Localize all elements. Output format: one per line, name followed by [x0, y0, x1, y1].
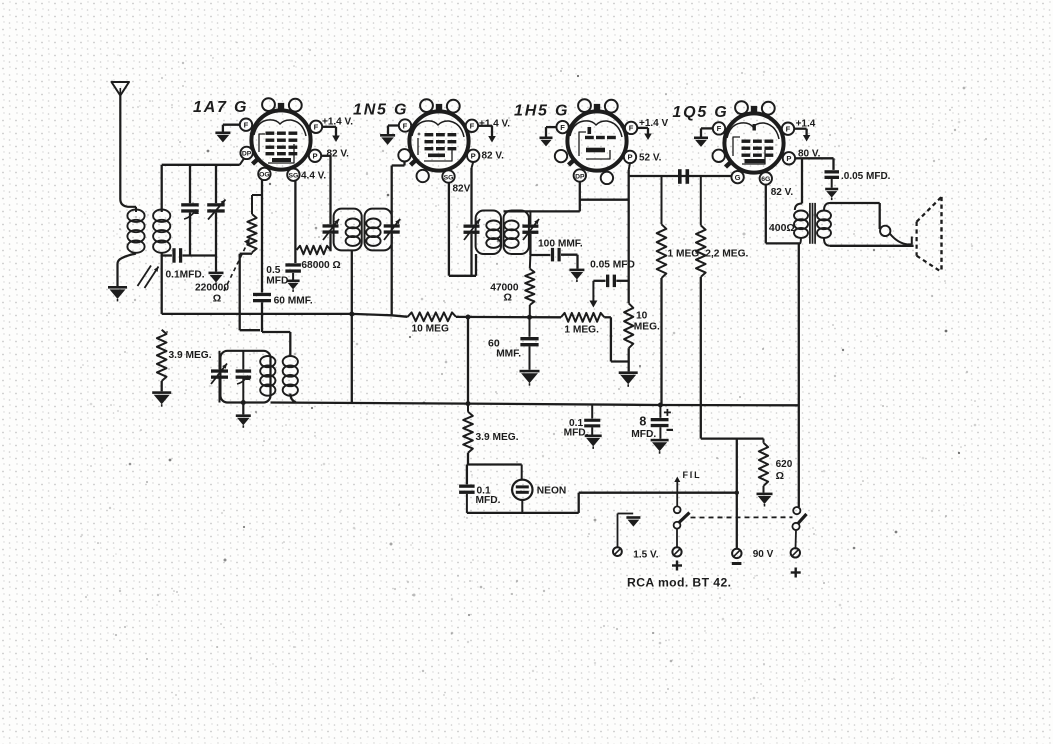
pin left 1H5 [555, 150, 567, 162]
terminal 90V minus [732, 549, 741, 558]
svg-text:G: G [735, 173, 741, 182]
ground 0.5MFD [287, 280, 300, 292]
svg-text:82 V.: 82 V. [771, 187, 794, 198]
NEON box bottom [467, 493, 579, 513]
label 1 MEG horiz [564, 325, 599, 336]
label 80V 1Q5 [798, 148, 821, 159]
bus B-minus bottom [271, 403, 799, 406]
wire IF2 left down [470, 234, 472, 276]
svg-text:3.9 MEG.: 3.9 MEG. [169, 350, 212, 361]
terminal 90V plus [791, 548, 800, 557]
ground 100MMF [569, 269, 584, 282]
svg-text:8: 8 [639, 415, 646, 429]
IF1 can right [365, 209, 392, 251]
wire F1N5 to ground [388, 126, 399, 135]
wire IF1 left down [329, 234, 331, 252]
capacitor osc fixed [236, 351, 252, 403]
dashed switch link [691, 516, 793, 518]
svg-text:6G: 6G [761, 176, 770, 183]
pin F left 1N5 [399, 119, 411, 131]
svg-text:MFD: MFD [266, 275, 288, 286]
IF2 can left [476, 211, 501, 255]
label minus 8MFD [667, 429, 674, 431]
svg-text:MMF.: MMF. [496, 348, 521, 359]
tube U1 1A7G [251, 98, 310, 169]
capacitor 0.1 MFD antenna [162, 248, 216, 263]
resistor 3.9 MEG right [463, 404, 473, 465]
terminal FIL plus [672, 547, 681, 556]
wire P 1N5 to IF2 [472, 162, 474, 224]
svg-text:RCA mod. BT 42.: RCA mod. BT 42. [627, 576, 731, 590]
svg-text:P: P [312, 152, 317, 161]
tube label 1Q5 G [672, 104, 728, 121]
oscillator coil box [220, 351, 270, 403]
switch 90V [792, 507, 806, 548]
svg-text:Ω: Ω [213, 293, 221, 305]
pin left 1N5 [398, 149, 410, 161]
wire +1.4 1Q5 [794, 129, 810, 142]
label plus FIL [672, 561, 682, 571]
label 60 MMF osc [274, 296, 313, 307]
pin SG 1N5 [442, 170, 454, 182]
wire 2.2MEG to minus line [701, 437, 764, 439]
AVC arrow [589, 281, 597, 308]
label plus 90V [791, 568, 801, 578]
svg-text:1 MEG.: 1 MEG. [564, 325, 599, 336]
svg-text:F: F [786, 125, 791, 134]
wire F1A7 to ground [223, 125, 240, 132]
label 3.9 MEG left [169, 350, 212, 361]
svg-text:OG: OG [259, 172, 270, 179]
pin F right 1H5 [625, 122, 637, 134]
svg-text:DP: DP [242, 151, 252, 158]
ground 10MEG vert [619, 371, 638, 386]
svg-text:MFD.: MFD. [564, 428, 589, 439]
label 82V 1A7 [327, 149, 350, 160]
capacitor 100 MMF [530, 248, 577, 269]
wire OT to switch [798, 243, 800, 507]
wire minus terminal line [736, 439, 738, 549]
svg-text:Ω: Ω [504, 292, 512, 304]
wire secondary bottom [161, 253, 163, 314]
pin F right 1N5 [466, 120, 478, 132]
wire bus mid [456, 316, 561, 319]
wire secondary top loop [830, 203, 912, 245]
svg-text:F: F [629, 124, 634, 133]
label 10 MEG vert [634, 310, 660, 332]
IF2 coil left [486, 221, 500, 248]
label 1.5 V. [633, 550, 658, 561]
wire IF1 tap down [351, 250, 353, 403]
tube U4 1Q5G [724, 101, 783, 172]
wire antenna lead [120, 96, 136, 207]
svg-text:F: F [560, 123, 565, 132]
label +1.4V 1N5 [479, 119, 510, 130]
junction 60MMF [527, 315, 532, 320]
label 3.9 MEG right [476, 432, 519, 443]
wire F1Q5 to ground [701, 128, 713, 136]
wire 468 riser [467, 317, 469, 404]
label +1.4 1Q5 [796, 119, 816, 130]
dashed arrow 220k [224, 238, 250, 291]
svg-text:1Q5 G: 1Q5 G [672, 104, 728, 121]
label 60 MMF AVC [488, 337, 521, 359]
pin DP 1H5 [574, 169, 586, 181]
junction IF1 tap bus [349, 312, 354, 317]
ground 620 [757, 493, 773, 507]
svg-text:2,2 MEG.: 2,2 MEG. [705, 248, 748, 259]
pin 6G 1Q5 [760, 172, 772, 184]
svg-text:MFD.: MFD. [631, 429, 656, 440]
svg-text:FIL: FIL [683, 470, 702, 480]
wire P 1H5 down [629, 163, 630, 176]
svg-text:82 V.: 82 V. [482, 150, 505, 161]
label +1.4V 1A7 [322, 117, 353, 128]
svg-text:P: P [471, 152, 476, 161]
antenna coil primary [127, 207, 144, 254]
svg-text:SG: SG [288, 173, 298, 180]
wire 6G down [766, 185, 800, 244]
tuning arrow antenna coils [138, 266, 159, 289]
label minus 90V [732, 562, 742, 565]
ground F 1H5 [540, 137, 553, 147]
svg-text:+1.4 V.: +1.4 V. [479, 119, 510, 130]
svg-text:400Ω: 400Ω [769, 222, 795, 234]
pin F right 1A7 [310, 121, 322, 133]
IF2 coil right [504, 221, 518, 248]
label NEON [537, 485, 566, 496]
pin F right 1Q5 [782, 123, 794, 135]
resistor 68000 ohm [297, 246, 331, 254]
resistor 10 MEG [408, 312, 456, 321]
resistor 47000 ohm [525, 255, 534, 317]
wire DP riser [240, 159, 244, 165]
wire +1.4V 1H5 [637, 128, 652, 140]
pin P 1N5 [467, 150, 479, 162]
resistor 1 MEG vertical [657, 176, 667, 405]
switch FIL [674, 493, 690, 548]
svg-text:52 V.: 52 V. [639, 153, 662, 164]
label 100 MMF [538, 239, 583, 250]
resistor 10 MEG vertical [624, 303, 633, 371]
svg-text:F: F [403, 121, 408, 130]
resistor 3.9 MEG left [157, 330, 167, 392]
ground 8MFD [651, 439, 669, 454]
capacitor coupling [678, 169, 689, 184]
label 1 MEG vertical [668, 248, 700, 259]
svg-text:100 MMF.: 100 MMF. [538, 239, 583, 250]
tube label 1A7 G [193, 99, 248, 116]
label FIL [683, 470, 702, 480]
IF2 can right [504, 211, 529, 255]
wire IF1 right to bus [391, 234, 393, 316]
pin F left 1A7 [240, 119, 252, 131]
FIL arrow [674, 477, 680, 493]
svg-text:0.5: 0.5 [266, 265, 280, 276]
speaker cone [917, 197, 942, 271]
svg-text:1A7 G: 1A7 G [193, 99, 248, 116]
svg-text:90 V: 90 V [753, 549, 774, 560]
svg-text:+1.4 V: +1.4 V [639, 118, 669, 129]
wire OG line [261, 180, 263, 293]
label 0.1 MFD neon [476, 485, 501, 506]
svg-text:10: 10 [636, 310, 648, 321]
capacitor 0.05 MFD det [593, 275, 628, 288]
wire SG 1A7 down [294, 181, 296, 263]
resistor 1 MEG horiz [561, 313, 604, 322]
svg-text:82V: 82V [453, 184, 471, 195]
svg-text:620: 620 [776, 459, 793, 470]
bus AVC top [162, 314, 408, 317]
svg-text:.0.05 MFD.: .0.05 MFD. [841, 171, 891, 182]
label 82V 1Q5 [771, 187, 794, 198]
label 2.2 MEG [705, 248, 748, 259]
svg-text:4.4 V.: 4.4 V. [301, 171, 326, 182]
capacitor 0.1 MFD neon [459, 485, 475, 513]
ground antenna [108, 286, 127, 301]
pin DP 1A7 [240, 147, 252, 159]
IF2 trimmer right [522, 211, 539, 240]
caption RCA mod. BT42 [627, 576, 731, 590]
IF1 trimmer right [384, 219, 400, 240]
capacitor 60 MMF AVC [520, 317, 538, 370]
junction bus x660 [658, 403, 663, 408]
junction osc ground [241, 400, 246, 405]
label 400 ohm [769, 222, 795, 234]
tube label 1N5 G [353, 102, 408, 119]
output transformer primary [794, 204, 808, 244]
label 10 MEG [412, 324, 449, 335]
svg-text:MEG.: MEG. [634, 322, 660, 333]
label 8 MFD [631, 415, 656, 440]
svg-text:0.1MFD.: 0.1MFD. [166, 270, 205, 281]
ground F 1A7 [215, 132, 230, 143]
capacitor 0.05 MFD output [825, 170, 840, 188]
label 68000 ohm [301, 260, 340, 271]
ground F 1N5 [380, 134, 395, 145]
wire osc grid jog [240, 254, 260, 331]
wire DP to 10MEG line [580, 199, 629, 201]
pin bottom-left 1N5 [417, 170, 429, 182]
svg-text:Ω: Ω [776, 470, 784, 482]
wire DP 1H5 down [579, 182, 581, 212]
ground chassis 1.5V [626, 516, 640, 526]
capacitor tuning (variable) [207, 165, 225, 258]
pin P 1A7 [309, 150, 321, 162]
wire antenna coil to ground [118, 254, 137, 287]
capacitor 60 MMF osc [253, 293, 271, 332]
capacitor 0.1 MFD output bus [584, 404, 600, 434]
IF1 coil right [366, 219, 380, 246]
svg-text:0.05 MFD: 0.05 MFD [590, 260, 635, 271]
terminal 1.5V minus [613, 547, 622, 556]
wire secondary top to bus [162, 165, 240, 212]
resistor 220000 ohm [240, 195, 262, 254]
svg-text:1.5 V.: 1.5 V. [633, 550, 658, 561]
svg-text:F: F [314, 123, 319, 132]
pin OG 1A7 [258, 168, 270, 180]
wire secondary bottom [830, 245, 914, 247]
pin SG 1A7 [287, 169, 299, 181]
svg-text:1N5 G: 1N5 G [353, 102, 408, 119]
svg-text:68000 Ω: 68000 Ω [301, 260, 340, 271]
output transformer core [810, 203, 815, 244]
svg-text:DP: DP [575, 173, 585, 180]
output transformer secondary [817, 203, 831, 246]
svg-text:F: F [244, 121, 249, 130]
NEON box top [467, 465, 522, 485]
label 82V 1N5 [482, 150, 505, 161]
label 0.1 MFD bus [564, 418, 589, 439]
pin F left 1Q5 [713, 122, 725, 134]
tube U2 1N5G [409, 99, 468, 170]
label plus 8MFD [664, 409, 671, 416]
wire P to 0.05 cap [802, 158, 834, 170]
svg-text:+1.4 V.: +1.4 V. [322, 117, 353, 128]
ground oscillator [236, 403, 251, 428]
resistor 620 ohm [759, 439, 768, 493]
label 220000 ohm [195, 283, 229, 305]
label 0.05 MFD det [590, 260, 635, 271]
label 82V SG 1N5 [453, 184, 471, 195]
wire F1H5 to ground [546, 127, 557, 136]
junction FIL bus minus [735, 491, 739, 495]
oscillator coil A [260, 356, 275, 396]
svg-text:F: F [717, 124, 722, 133]
svg-text:10 MEG: 10 MEG [412, 324, 449, 335]
wire 10MEG riser [628, 176, 630, 303]
svg-text:MFD.: MFD. [476, 495, 501, 506]
IF1 can left [334, 209, 362, 251]
wire IF2 right down [529, 234, 531, 255]
svg-text:P: P [627, 153, 632, 162]
junction bus end right [798, 404, 800, 406]
label 620 ohm [776, 459, 793, 482]
capacitor 0.5 MFD [285, 263, 301, 279]
wire P 1A7 to IF1 [321, 156, 330, 224]
label 90 V [753, 549, 774, 560]
IF1 trimmer left [323, 219, 340, 240]
pin F left 1H5 [556, 121, 568, 133]
wire 1N5 grid to IF1 [392, 161, 405, 224]
junction bus x468 top [466, 315, 471, 320]
tube U3 1H5G [567, 99, 626, 170]
label 0.5 MFD [266, 265, 288, 286]
wire P1H5 to G1Q5 [629, 175, 732, 177]
oscillator coil B [283, 356, 298, 403]
pin left 1Q5 [713, 150, 725, 162]
wire +1.4V 1N5 [478, 126, 496, 143]
IF1 coil left [346, 219, 360, 246]
antenna [112, 82, 130, 96]
wire osc feedback jog [262, 332, 290, 357]
pin G 1Q5 [731, 171, 743, 183]
label 0.05 MFD output [841, 171, 891, 182]
ground F 1Q5 [694, 137, 708, 147]
wire P 1Q5 to OT [795, 158, 802, 203]
ground tuning cap [209, 258, 224, 285]
wire 1.5V terminal [618, 514, 634, 548]
svg-text:SG: SG [444, 174, 454, 181]
svg-text:1H5 G: 1H5 G [514, 103, 569, 120]
pin P 1H5 [624, 151, 636, 163]
ground 60MMF AVC [520, 370, 540, 386]
svg-text:3.9 MEG.: 3.9 MEG. [476, 432, 519, 443]
wire IF2 top to DP [504, 210, 580, 212]
ground 0.05 output [825, 188, 838, 200]
label +1.4V 1H5 [639, 118, 669, 129]
ground 0.1 bus [585, 435, 602, 449]
label 52V 1H5 [639, 153, 662, 164]
pin P 1Q5 [783, 152, 795, 164]
svg-text:60 MMF.: 60 MMF. [274, 296, 313, 307]
capacitor padder (fixed) [181, 165, 199, 256]
label 47000 ohm [490, 283, 519, 304]
svg-text:+1.4: +1.4 [796, 119, 816, 130]
ground 3.9MEG left [152, 391, 171, 406]
wire +1.4V 1A7 [322, 127, 340, 142]
label 4.4V 1A7 [301, 171, 326, 182]
capacitor osc variable [211, 351, 228, 403]
neon lamp [512, 465, 532, 513]
wire SG 1N5 down [449, 183, 476, 276]
IF2 trimmer left [464, 219, 481, 240]
svg-text:1 MEG: 1 MEG [668, 248, 700, 259]
label 0.1MFD antenna [166, 270, 205, 281]
resistor 2.2 MEG [696, 176, 706, 439]
svg-text:P: P [786, 154, 791, 163]
junction bus x468 [466, 401, 471, 406]
RF secondary coil [153, 210, 170, 253]
wire 1MEG to ground jog [604, 317, 628, 361]
tube label 1H5 G [514, 103, 569, 120]
svg-text:F: F [470, 122, 475, 131]
pin bottom 1H5 [601, 172, 613, 184]
bus FIL [579, 492, 737, 494]
svg-text:NEON: NEON [537, 485, 566, 496]
capacitor 8 MFD [651, 405, 669, 439]
